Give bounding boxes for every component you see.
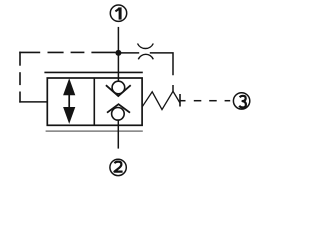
wire: dashed pilot line vertical (left)	[19, 52, 21, 103]
valve body top rail	[44, 71, 142, 73]
wire: dashed pilot line horizontal (left)	[19, 51, 115, 53]
wire: pilot line into spool box	[19, 101, 47, 103]
spring end bar	[179, 94, 181, 107]
junction dot	[115, 50, 121, 56]
check valve top (circle + seat V)	[106, 81, 131, 96]
wire: port 1 line down to check valve	[117, 27, 119, 82]
wire: dashed line to port 3	[180, 100, 230, 102]
wire: port 2 line	[117, 120, 119, 149]
check valve bottom (circle + seat)	[107, 104, 130, 120]
valve body envelope	[47, 78, 142, 125]
wire: junction to orifice	[118, 52, 139, 54]
orifice (two arcs)	[138, 44, 154, 60]
valve body divider	[93, 78, 95, 125]
valve body bottom rail (gray)	[46, 130, 143, 132]
port circle 2	[110, 159, 126, 175]
port circle 1	[110, 5, 126, 21]
spring	[142, 91, 180, 109]
wire: orifice to corner and down to spring	[150, 53, 173, 91]
port circle 3	[233, 93, 249, 109]
flow arrow (double-headed) in left box	[63, 78, 75, 124]
